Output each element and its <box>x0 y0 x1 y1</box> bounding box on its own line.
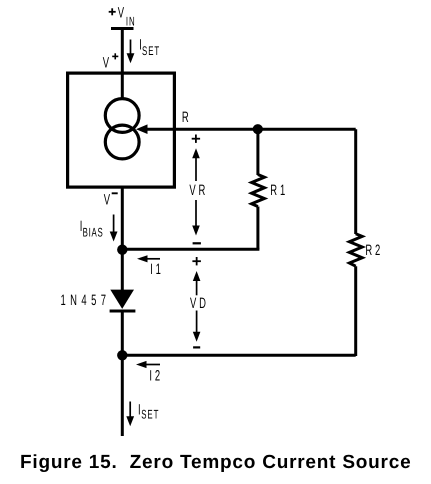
current source U1 box outline <box>68 73 175 187</box>
label IBIAS <box>80 218 104 240</box>
svg-text:I2: I2 <box>149 367 163 384</box>
wire node A to R1 bottom (VR- rail) <box>122 248 259 251</box>
label ISET (bottom) <box>138 401 159 421</box>
wire R2 bottom to node B rail <box>354 266 357 356</box>
node B junction dot <box>117 350 127 360</box>
arrow VD lower (pointing down) <box>193 311 201 342</box>
diode D1 1N457 triangle <box>110 290 134 309</box>
svg-text:V: V <box>104 192 113 209</box>
label ISET (top) <box>139 37 160 58</box>
wire node B down to ISET output <box>121 355 124 436</box>
svg-text:SET: SET <box>141 408 159 422</box>
svg-text:SET: SET <box>142 44 160 58</box>
label +VIN <box>109 5 136 29</box>
arrow VR upper (pointing up) <box>192 148 200 181</box>
wire R2 top vertical from R pin rail <box>354 129 357 234</box>
svg-text:1N457: 1N457 <box>61 292 111 309</box>
label 1N457 <box>61 292 111 309</box>
svg-text:VR: VR <box>189 182 208 199</box>
current source symbol circle 2 (bottom) <box>105 125 139 159</box>
label VD minus sign <box>193 346 200 348</box>
node +VIN supply terminal bar <box>111 27 134 30</box>
label VD <box>190 295 209 312</box>
node A junction dot <box>117 245 127 255</box>
caption Figure 15 <box>20 452 411 473</box>
label I2 <box>149 367 163 384</box>
svg-text:IN: IN <box>126 14 136 28</box>
wire from +VIN bar to regulator box top <box>121 29 124 99</box>
svg-text:I1: I1 <box>150 261 164 278</box>
pin R arrowhead into current source <box>136 124 148 134</box>
label VR plus sign <box>192 135 200 143</box>
label R pin <box>182 109 192 126</box>
wire node to R1 top <box>256 129 259 175</box>
svg-text:R: R <box>182 109 192 126</box>
svg-text:V: V <box>103 54 112 71</box>
wire diode cathode to node B <box>121 311 124 356</box>
diode D1 cathode bar <box>110 310 136 313</box>
svg-text:Figure 15. Zero Tempco Curren: Figure 15. Zero Tempco Current Source <box>20 452 411 473</box>
arrow I2 (pointing left) <box>136 361 160 368</box>
label R2 <box>365 242 383 259</box>
arrow ISET (bottom, pointing down) <box>126 402 134 427</box>
svg-text:R2: R2 <box>365 242 383 259</box>
label I1 <box>150 261 164 278</box>
label VR <box>189 182 208 199</box>
wire R1 bottom down to VR- rail <box>256 207 259 250</box>
arrow VR lower (pointing down) <box>192 200 200 236</box>
label V+ pin <box>103 53 119 71</box>
wire box bottom to node A <box>121 187 124 250</box>
svg-text:BIAS: BIAS <box>83 226 104 240</box>
arrow I1 (pointing left) <box>137 255 160 262</box>
svg-text:R1: R1 <box>270 182 288 199</box>
svg-text:VD: VD <box>190 295 209 312</box>
label V- pin <box>104 192 118 209</box>
wire R pin horizontal to R1/R2 <box>145 128 356 131</box>
label VD plus sign <box>192 257 201 265</box>
resistor R1 <box>252 175 265 207</box>
resistor R2 <box>349 234 362 267</box>
wire node B to R2 bottom <box>122 354 355 357</box>
arrow ISET (top, pointing down) <box>127 40 135 64</box>
label VR minus sign <box>193 242 201 244</box>
junction node dot at R1 top <box>253 124 263 134</box>
arrow VD upper (pointing up) <box>193 271 201 295</box>
current source symbol circle 1 (top) <box>105 99 139 133</box>
label R1 <box>270 182 288 199</box>
arrow IBIAS (pointing down) <box>110 215 118 242</box>
wire node A to diode anode <box>121 250 124 291</box>
